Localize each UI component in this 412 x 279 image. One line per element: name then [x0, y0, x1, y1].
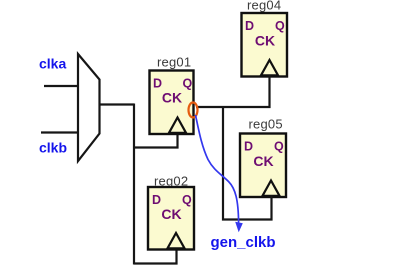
svg-text:D: D: [152, 193, 161, 207]
wire branch down to reg05 clock: [223, 107, 272, 220]
svg-text:D: D: [245, 19, 254, 33]
svg-text:D: D: [244, 140, 253, 154]
svg-text:reg05: reg05: [249, 117, 283, 132]
svg-text:CK: CK: [253, 153, 273, 169]
highlight ellipse on reg01 Q pin: [189, 103, 198, 118]
svg-text:Q: Q: [275, 19, 285, 33]
wire clkb input: [41, 131, 79, 133]
reg04 clock triangle: [261, 60, 278, 75]
svg-text:CK: CK: [161, 206, 181, 222]
register reg04: [242, 13, 288, 77]
annotation arrowhead: [235, 222, 243, 233]
svg-text:Q: Q: [274, 140, 284, 154]
mux U1: [78, 54, 100, 161]
svg-text:clkb: clkb: [39, 140, 67, 156]
register reg02: [148, 187, 194, 250]
svg-text:reg04: reg04: [247, 0, 281, 13]
svg-text:clka: clka: [39, 56, 66, 72]
reg02 clock triangle: [168, 233, 185, 248]
svg-text:gen_clkb: gen_clkb: [211, 234, 276, 251]
svg-text:D: D: [153, 77, 162, 91]
register reg01: [150, 71, 194, 135]
svg-text:Q: Q: [182, 193, 192, 207]
wire branch to reg02 clock: [134, 248, 177, 264]
wire mux output: [100, 103, 135, 105]
wire clock trunk vertical: [133, 104, 135, 265]
svg-text:Q: Q: [183, 77, 193, 91]
svg-text:reg01: reg01: [157, 55, 191, 70]
wire reg01 Q output to reg04 clock: [196, 75, 270, 107]
reg05 clock triangle: [263, 181, 280, 196]
wire clka input: [44, 85, 79, 87]
annotation blue curve from Q pin to gen_clkb: [196, 115, 239, 223]
register reg05: [240, 134, 286, 198]
svg-text:CK: CK: [255, 33, 275, 49]
reg01 clock triangle: [169, 118, 186, 133]
wire branch to reg01 clock: [134, 132, 178, 148]
svg-text:CK: CK: [162, 90, 182, 106]
